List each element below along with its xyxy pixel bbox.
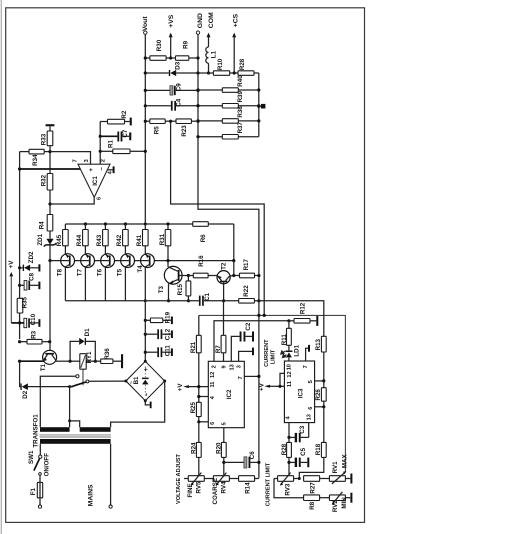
resistor R14 (239, 476, 259, 494)
svg-text:11: 11 (210, 382, 216, 388)
wire collector rail (65, 300, 199, 302)
svg-text:7: 7 (73, 159, 79, 162)
capacitor C1 (199, 292, 211, 305)
wire GND rail (198, 34, 259, 478)
diode D2 (20, 361, 72, 399)
svg-text:R5: R5 (153, 126, 160, 134)
wire L1 to row (208, 63, 210, 73)
inductor L1 (206, 47, 218, 63)
svg-text:T4: T4 (137, 265, 144, 273)
svg-text:R7: R7 (215, 345, 222, 353)
svg-text:R28: R28 (281, 443, 288, 455)
zener ZD1 (37, 233, 56, 262)
wire RY1 mechanical link (82, 369, 84, 385)
wire IC2 pin11 (197, 385, 200, 388)
svg-text:RV4: RV4 (221, 481, 228, 493)
svg-text:C9: C9 (176, 83, 183, 91)
svg-text:TRANSFO1: TRANSFO1 (33, 414, 40, 448)
svg-text:IC3: IC3 (298, 388, 305, 398)
wire +VS lead (170, 36, 172, 58)
svg-text:R45: R45 (56, 234, 63, 246)
svg-text:6: 6 (210, 422, 216, 425)
svg-text:LD1: LD1 (293, 344, 300, 356)
diode D3 (144, 61, 200, 76)
svg-text:5: 5 (308, 380, 314, 383)
svg-text:T8: T8 (57, 268, 64, 276)
svg-text:FINE: FINE (187, 483, 194, 497)
svg-text:6: 6 (96, 197, 102, 200)
resistor R1 (100, 140, 147, 154)
resistor R3 (18, 330, 51, 344)
ground IC2 pin3 (239, 348, 254, 362)
svg-text:R26: R26 (315, 389, 322, 401)
resistor R10 (198, 58, 238, 75)
svg-text:R39: R39 (237, 90, 244, 102)
resistor R40 (196, 75, 260, 93)
svg-text:12: 12 (287, 371, 293, 377)
wire IC3 pin5 (315, 379, 326, 382)
svg-text:GND: GND (197, 13, 204, 28)
svg-text:D1: D1 (84, 328, 91, 336)
svg-text:C1: C1 (204, 292, 211, 300)
wire IC1 pin2 riser (99, 122, 101, 165)
wire IC3 pins 11 12 (269, 373, 284, 388)
resistor R7 (215, 301, 226, 362)
svg-text:R19: R19 (165, 311, 172, 323)
resistor R30 (144, 39, 173, 60)
svg-text:R16: R16 (198, 255, 205, 267)
svg-text:R6: R6 (200, 234, 207, 242)
svg-text:10: 10 (287, 364, 293, 370)
wire right bank rail (258, 73, 260, 137)
svg-text:3: 3 (84, 159, 90, 162)
resistor R24 (190, 442, 201, 476)
svg-text:6: 6 (308, 407, 314, 410)
svg-text:2: 2 (212, 365, 218, 368)
svg-text:+VS: +VS (168, 14, 175, 28)
resistor R13 (315, 336, 326, 387)
resistor R38 (196, 106, 260, 124)
node +V arrow left (8, 260, 15, 323)
resistor R25 (190, 401, 201, 442)
svg-text:12: 12 (210, 372, 216, 378)
svg-text:R37: R37 (237, 121, 244, 133)
svg-text:COM: COM (208, 12, 215, 28)
resistor R41 (136, 224, 148, 254)
zener ZD2 (18, 251, 40, 272)
svg-text:RV5: RV5 (196, 481, 203, 493)
svg-text:C11: C11 (165, 345, 172, 357)
svg-text:R31: R31 (159, 233, 166, 245)
svg-text:R40: R40 (237, 75, 244, 87)
resistor R27 (304, 476, 330, 494)
wire IC3 pin13 (308, 423, 310, 438)
wire IC3 pin4 drop (288, 423, 290, 443)
wire IC2 pin4 (197, 395, 208, 398)
transistor T3 (158, 266, 189, 302)
potentiometer RV2 (329, 492, 352, 512)
svg-text:9: 9 (221, 365, 227, 368)
node +VS terminal (168, 14, 175, 37)
svg-text:R33: R33 (41, 133, 48, 145)
wire IC1 +input (20, 168, 81, 170)
svg-text:RV2: RV2 (332, 500, 339, 512)
svg-text:+: + (143, 367, 150, 371)
resistor R9 (171, 40, 200, 60)
svg-text:R34: R34 (32, 154, 39, 166)
svg-text:IC1: IC1 (92, 176, 99, 186)
resistor R21 (190, 315, 201, 402)
svg-text:R38: R38 (237, 106, 244, 118)
svg-text:C5: C5 (300, 447, 307, 455)
svg-text:R15: R15 (177, 283, 184, 295)
capacitor C7 (100, 129, 129, 141)
ground C7 (129, 132, 131, 140)
svg-text:R8: R8 (309, 501, 316, 509)
resistor R26 (315, 388, 326, 443)
wire base rail (50, 260, 234, 262)
svg-text:13: 13 (229, 364, 235, 370)
svg-text:D3: D3 (174, 61, 181, 69)
svg-text:R11: R11 (281, 334, 288, 346)
svg-text:C12: C12 (165, 328, 172, 340)
IC IC2 (208, 361, 244, 427)
svg-text:R24: R24 (190, 442, 197, 454)
LED LD1 (281, 344, 300, 361)
resistor R15 (177, 274, 191, 303)
svg-text:ZD1: ZD1 (37, 233, 44, 245)
resistor R12 (287, 302, 318, 326)
node +CS terminal (232, 13, 239, 37)
transistor T8 (57, 254, 75, 301)
wire left sense line (19, 152, 21, 299)
svg-text:R27: R27 (309, 482, 316, 494)
resistor R44 (76, 222, 88, 254)
svg-text:–: – (143, 392, 150, 396)
svg-text:B1: B1 (133, 376, 140, 384)
svg-text:–: – (98, 167, 105, 171)
capacitor C4 (144, 98, 200, 110)
wire IC1 pin3 (50, 152, 91, 165)
potentiometer RV1 (329, 453, 352, 483)
wire left line lower (49, 261, 51, 351)
svg-text:R23: R23 (181, 125, 188, 137)
svg-text:C2: C2 (245, 322, 252, 330)
svg-text:CURRENT: CURRENT (264, 339, 270, 367)
svg-text:R20: R20 (215, 442, 222, 454)
resistor R19 (144, 311, 173, 324)
svg-text:T1: T1 (40, 364, 47, 372)
svg-text:T6: T6 (97, 268, 104, 276)
relay contact SPDT (40, 375, 126, 428)
svg-text:F1: F1 (30, 488, 37, 496)
svg-text:RY1: RY1 (86, 351, 93, 363)
svg-text:+: + (88, 168, 95, 172)
svg-text:RV1: RV1 (332, 461, 339, 473)
node +V arrow at IC3 (258, 382, 270, 391)
svg-text:C7: C7 (122, 129, 129, 137)
svg-text:R4: R4 (38, 221, 45, 229)
capacitor C10 (electrolytic) (11, 313, 40, 327)
svg-text:+V: +V (258, 382, 265, 391)
svg-text:7: 7 (238, 376, 244, 379)
svg-text:Vout: Vout (142, 16, 149, 31)
svg-text:+V: +V (177, 383, 184, 392)
relay coil RY1 (70, 351, 95, 369)
capacitor C9 (electrolytic) (144, 83, 200, 95)
svg-text:T3: T3 (158, 286, 165, 294)
svg-text:R3: R3 (30, 330, 37, 338)
ground IC3 pin7 (306, 345, 310, 361)
potentiometer RV4 (212, 473, 239, 505)
ground above R33 (46, 124, 55, 131)
svg-text:ON/OFF: ON/OFF (43, 453, 50, 477)
svg-text:R12: R12 (299, 302, 306, 314)
resistor R28b (281, 442, 291, 475)
potentiometer RV3 (274, 473, 301, 496)
node GND terminal (196, 13, 204, 34)
svg-text:2: 2 (101, 159, 107, 162)
svg-text:C3: C3 (299, 425, 306, 433)
wire R22 to R13 (259, 301, 324, 337)
wire IC1 output pin6 (50, 197, 94, 204)
svg-text:COARSE: COARSE (212, 478, 219, 504)
ground IC1 pin4 (107, 166, 114, 173)
resistor R45 (56, 224, 68, 254)
svg-text:MIN: MIN (341, 497, 348, 509)
svg-text:R41: R41 (136, 234, 143, 246)
svg-text:L1: L1 (210, 50, 217, 58)
svg-text:13: 13 (307, 414, 313, 420)
capacitor C2 (231, 322, 254, 361)
resistor R17 (234, 258, 261, 277)
wire IC2 pin6 (197, 420, 208, 423)
svg-text:C10: C10 (30, 313, 37, 325)
svg-text:R17: R17 (243, 258, 250, 270)
resistor R20 (215, 442, 226, 476)
svg-text:R18: R18 (315, 443, 322, 455)
resistor R5 (144, 119, 173, 134)
transformer TRANSFO1 (33, 414, 112, 506)
svg-text:7: 7 (303, 365, 309, 368)
svg-text:VOLTAGE ADJUST: VOLTAGE ADJUST (176, 453, 182, 504)
wire IC2 pin2 riser (214, 321, 289, 362)
node MAINS terminal (88, 484, 113, 508)
svg-text:C4: C4 (176, 98, 183, 106)
svg-text:T5: T5 (117, 268, 124, 276)
svg-text:R21: R21 (190, 341, 197, 353)
svg-text:R9: R9 (182, 40, 189, 48)
transistor T5 (117, 254, 135, 301)
schematic border frame (6, 8, 365, 523)
svg-text:+V: +V (8, 260, 15, 269)
svg-text:MAX: MAX (341, 453, 348, 468)
wire +CS lead (233, 36, 235, 73)
wire IC2 pin5 drop (223, 428, 225, 443)
wire R5/R23 junction drop to lower right (171, 121, 265, 315)
wire B1 ac right to mains vertical (111, 381, 165, 427)
resistor R11 (281, 321, 291, 351)
svg-text:RV3: RV3 (285, 483, 292, 495)
transistor T1 (18, 350, 70, 371)
resistor R33 (41, 131, 53, 174)
resistor R8 (304, 495, 330, 510)
svg-text:MAINS: MAINS (88, 484, 95, 506)
svg-text:R36: R36 (104, 348, 111, 360)
IC IC3 (284, 361, 314, 423)
wire feedback line y315 (199, 315, 346, 472)
transistor T7 (77, 254, 95, 301)
svg-text:T2: T2 (221, 262, 228, 270)
wire IC3 pin6 (315, 405, 326, 408)
svg-text:5: 5 (222, 422, 228, 425)
svg-text:CURRENT LIMIT: CURRENT LIMIT (266, 462, 272, 506)
resistor R2 (100, 110, 130, 124)
resistor R35 (17, 296, 28, 339)
node +V arrow at IC2 (177, 383, 208, 392)
node Vout terminal (142, 16, 149, 35)
wire IC2 pin7 (244, 375, 260, 378)
svg-text:R32: R32 (41, 174, 48, 186)
svg-text:R44: R44 (76, 234, 83, 246)
capacitor C6 (electrolytic) (224, 451, 261, 468)
svg-text:R2: R2 (121, 110, 128, 118)
wire Vout rail (144, 34, 146, 224)
svg-text:ZD2: ZD2 (28, 251, 35, 263)
wire COM lead (208, 36, 210, 47)
svg-text:C8: C8 (28, 272, 35, 280)
svg-text:+CS: +CS (233, 13, 240, 27)
switch SW1 (28, 450, 51, 476)
scan page edge (0, 0, 2, 534)
resistor R42 (116, 222, 128, 254)
svg-text:R35: R35 (22, 296, 29, 308)
resistor R28 (238, 58, 259, 75)
capacitor C5 (289, 447, 309, 467)
ground R2 (130, 118, 132, 126)
wire RV3 left drop (274, 479, 304, 498)
wire R6 drop (233, 224, 235, 276)
resistor R34 (20, 149, 52, 166)
svg-text:3: 3 (236, 365, 242, 368)
capacitor C8 (electrolytic) (18, 272, 40, 290)
bridge rectifier B1 (124, 360, 166, 402)
resistor R37 (196, 121, 258, 139)
resistor R31 (159, 222, 171, 267)
resistor R16 (188, 255, 217, 278)
wire emitter rail (65, 223, 192, 225)
transistor T6 (97, 254, 115, 301)
svg-text:R42: R42 (116, 234, 123, 246)
resistor R36 (95, 348, 121, 364)
node COM terminal (207, 12, 215, 37)
svg-text:T7: T7 (77, 268, 84, 276)
resistor R39 (196, 90, 260, 108)
svg-text:R30: R30 (156, 39, 163, 51)
capacitor C3 (289, 425, 309, 442)
label CURRENT LIMIT upper (264, 339, 276, 367)
capacitor C11 (144, 345, 173, 357)
svg-text:LIMIT: LIMIT (270, 349, 276, 364)
transistor T4 (137, 254, 155, 362)
node sense terminal square (257, 104, 265, 109)
resistor R6 (193, 222, 209, 243)
svg-text:SW1: SW1 (28, 450, 35, 464)
potentiometer RV5 (184, 473, 213, 498)
svg-text:R22: R22 (243, 285, 250, 297)
svg-text:R28: R28 (239, 58, 246, 70)
svg-text:C6: C6 (249, 451, 256, 459)
resistor R4 (38, 215, 52, 239)
resistor R22 (239, 285, 261, 303)
wire centre-tap drop (69, 387, 71, 421)
ground R36 (121, 354, 123, 368)
fuse F1 (30, 475, 43, 508)
svg-text:R43: R43 (96, 234, 103, 246)
ground B1 minus (145, 401, 151, 409)
svg-text:R14: R14 (244, 482, 251, 494)
diode D1 (69, 328, 97, 363)
capacitor C12 (144, 328, 173, 340)
svg-text:11: 11 (287, 381, 293, 387)
resistor R32 (41, 174, 53, 215)
resistor R23 (171, 119, 200, 137)
svg-text:R10: R10 (217, 58, 224, 70)
svg-text:IC2: IC2 (226, 389, 233, 399)
svg-text:R13: R13 (315, 338, 322, 350)
transistor T2 (217, 262, 234, 302)
resistor R18 (299, 442, 326, 478)
op-amp IC1 (73, 159, 114, 200)
svg-text:D2: D2 (22, 390, 29, 398)
svg-text:R1: R1 (107, 140, 114, 148)
svg-text:R25: R25 (190, 401, 197, 413)
resistor R43 (96, 222, 108, 254)
